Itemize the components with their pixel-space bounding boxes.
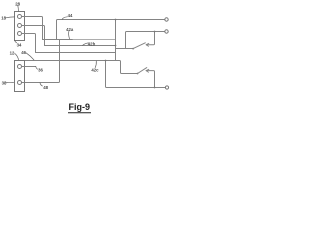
- leader 38: [6, 81, 13, 83]
- svg-text:18: 18: [1, 16, 6, 21]
- svg-text:46: 46: [21, 50, 26, 55]
- switch 1 fixed contact from terminal line 2: [146, 32, 154, 45]
- leader 46: [26, 53, 34, 60]
- junction dot terminal line 2: [154, 31, 156, 33]
- svg-text:38: 38: [2, 80, 7, 85]
- bus line 42a faint right part: [73, 39, 116, 41]
- box 12 circle 2: [18, 81, 22, 85]
- svg-text:34: 34: [17, 42, 22, 47]
- switch 1 blade: [133, 43, 145, 49]
- switch unit box 12: [15, 61, 25, 92]
- junction dot V1 top: [115, 19, 117, 21]
- switch 1 input line: [116, 48, 133, 50]
- bus line 42a: [43, 39, 74, 41]
- svg-text:42b: 42b: [88, 42, 96, 47]
- riser x60 bus1 to lower box wire: [22, 40, 60, 83]
- svg-text:44: 44: [68, 13, 73, 18]
- leader 18: [6, 16, 15, 19]
- svg-text:48: 48: [43, 85, 48, 90]
- riser to terminal line 1: [57, 20, 165, 40]
- wire pin2 to bus2: [22, 26, 45, 46]
- leader 34: [15, 41, 17, 43]
- svg-text:Fig-9: Fig-9: [69, 102, 91, 112]
- terminal 2 circle: [165, 30, 168, 33]
- wire from box12 circle1 stub 36: [22, 66, 36, 68]
- wire pin3 to bus3: [22, 34, 36, 53]
- svg-text:28: 28: [15, 1, 20, 6]
- wire pin1 to bus1: [22, 17, 43, 40]
- svg-text:42a: 42a: [66, 27, 74, 32]
- leader 42c: [95, 61, 96, 68]
- junction dot bottom line: [154, 87, 156, 89]
- terminal line 2 with drop V2: [126, 32, 165, 49]
- switch 1 fixed-side arrowhead: [146, 43, 149, 46]
- vertical V3 bus4 to bottom terminal line: [106, 61, 166, 88]
- switch 1 pivot dot: [132, 48, 134, 50]
- switch 2 pivot dot: [137, 73, 139, 75]
- leader 48: [40, 83, 42, 86]
- leader 42b: [83, 43, 89, 46]
- switch 2 blade: [138, 68, 147, 74]
- connector block 18: [15, 12, 25, 41]
- riser small dots: [59, 45, 60, 46]
- caption underline: [68, 112, 91, 114]
- pin circle 1: [18, 15, 22, 19]
- leader 42a: [68, 31, 71, 39]
- terminal 1 circle: [165, 18, 168, 21]
- switch 2 fixed-side arrowhead: [146, 69, 149, 72]
- figure caption Fig-9: [69, 102, 91, 112]
- leader 36: [36, 66, 38, 69]
- bus line 3: [36, 52, 116, 54]
- svg-text:36: 36: [38, 67, 43, 72]
- vertical V1: [115, 20, 117, 61]
- svg-text:42c: 42c: [91, 67, 99, 72]
- leader 44: [62, 17, 67, 20]
- pin circle 3: [18, 32, 22, 36]
- leader 12: [15, 53, 19, 59]
- box 12 circle 1: [18, 65, 22, 69]
- leader 28: [17, 5, 20, 11]
- bus line 42b: [45, 45, 116, 47]
- terminal 3 circle: [165, 86, 168, 89]
- pin circle 2: [18, 24, 22, 28]
- junction dot V1 bus2: [115, 45, 117, 47]
- bus line 46 with drop to switch 14 input: [25, 61, 138, 74]
- junction dot V3 top: [105, 60, 107, 62]
- svg-text:12: 12: [10, 51, 15, 56]
- switch 2 fixed contact drop: [146, 71, 154, 88]
